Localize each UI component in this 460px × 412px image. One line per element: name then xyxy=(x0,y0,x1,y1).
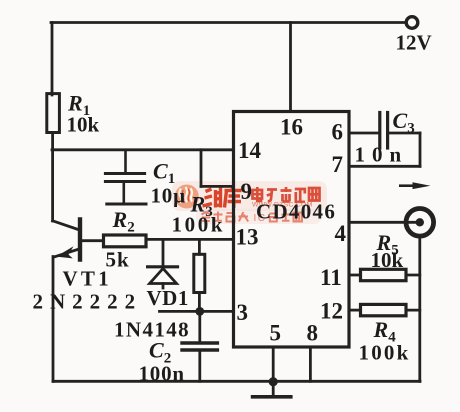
svg-text:4: 4 xyxy=(335,221,347,246)
svg-text:12: 12 xyxy=(320,299,343,324)
wire pin 9 branch vertical xyxy=(200,150,203,187)
resistor R4 leads xyxy=(349,309,361,312)
capacitor C2 plates xyxy=(182,341,217,344)
wire pin 6 to C3 xyxy=(349,132,379,135)
resistor R3 xyxy=(194,254,205,292)
svg-text:6: 6 xyxy=(332,120,344,145)
resistor R3 top lead xyxy=(198,239,201,254)
capacitor C1 xyxy=(105,150,146,204)
ground bar xyxy=(253,395,291,399)
svg-text:14: 14 xyxy=(238,138,262,163)
watermark logo circle xyxy=(175,185,199,209)
wire pin 9 branch horizontal xyxy=(201,185,234,188)
watermark chars dianzi shichang wang xyxy=(253,187,320,202)
wire pin 8 down xyxy=(309,347,312,381)
watermark char wei xyxy=(203,188,223,208)
resistor R3 bottom lead xyxy=(198,293,201,312)
ground stub xyxy=(272,382,275,396)
wire C3 right xyxy=(388,132,420,135)
resistor R5 xyxy=(361,269,407,280)
wire R2 right to pin 13 xyxy=(146,238,234,241)
svg-text:100n: 100n xyxy=(139,362,185,386)
transistor VT1 base lead xyxy=(82,239,104,242)
svg-text:CD4046: CD4046 xyxy=(256,200,336,224)
terminal 12V xyxy=(406,17,418,29)
wire bottom ground rail xyxy=(53,380,420,383)
svg-text:3: 3 xyxy=(237,300,249,325)
transistor VT1 collector diagonal xyxy=(53,221,79,230)
wire top supply rail xyxy=(51,21,406,24)
diode VD1 bottom lead stub xyxy=(162,284,165,289)
svg-text:9: 9 xyxy=(241,179,253,204)
wire pin 5 down xyxy=(272,347,275,382)
wire pin 7 xyxy=(349,165,420,168)
svg-text:8: 8 xyxy=(307,321,319,346)
svg-text:5: 5 xyxy=(270,321,282,346)
transistor VT1 emitter arrowhead xyxy=(56,246,73,258)
svg-text:100k: 100k xyxy=(172,213,226,237)
IC U1 CD4046 box xyxy=(234,112,350,348)
signal arrow xyxy=(399,184,414,187)
wire left rail upper xyxy=(51,23,54,96)
wire node to pin 14 xyxy=(52,148,234,151)
svg-text:VT1: VT1 xyxy=(63,267,112,291)
capacitor C3 plates xyxy=(378,113,381,149)
wire emitter rail down xyxy=(52,257,55,382)
resistor R5 leads xyxy=(349,274,361,277)
watermark slogan quanqiu zuida IC caigouwang xyxy=(202,212,249,222)
diode VD1 top lead xyxy=(162,239,165,264)
svg-text:16: 16 xyxy=(280,115,303,140)
svg-text:12V: 12V xyxy=(396,31,432,55)
wire R1 bottom to collector bend xyxy=(51,133,54,222)
transistor VT1 emitter diagonal xyxy=(54,249,79,257)
diode VD1 triangle xyxy=(150,269,177,284)
svg-text:10k: 10k xyxy=(371,248,404,272)
resistor R2 xyxy=(104,235,147,247)
watermark char ku xyxy=(225,187,242,208)
svg-text:11: 11 xyxy=(320,265,342,290)
wire C3 loop right drop xyxy=(419,133,422,166)
watermark halo xyxy=(172,181,327,211)
capacitor C2 leads xyxy=(198,311,201,342)
svg-text:2N2222: 2N2222 xyxy=(33,290,143,314)
svg-text:VD1: VD1 xyxy=(147,286,189,310)
svg-text:10n: 10n xyxy=(355,143,409,167)
wire pin 16 supply xyxy=(289,23,292,112)
wire output jack down rail xyxy=(418,237,421,381)
wire pin 4 to output jack xyxy=(349,221,420,224)
resistor R1 xyxy=(47,94,60,133)
transistor VT1 base bar xyxy=(78,220,82,260)
wire pin 3 to node xyxy=(160,310,234,313)
junction node ground xyxy=(269,377,278,386)
diode VD1 cathode bar xyxy=(148,265,178,268)
svg-text:10k: 10k xyxy=(67,113,100,137)
junction node A (R3/C2/pin3) xyxy=(195,307,204,316)
output jack terminal xyxy=(406,209,434,237)
svg-text:10μ: 10μ xyxy=(151,184,186,208)
svg-text:13: 13 xyxy=(236,225,259,250)
svg-text:100k: 100k xyxy=(359,341,411,365)
resistor R4 xyxy=(361,304,407,315)
svg-text:7: 7 xyxy=(332,152,344,177)
